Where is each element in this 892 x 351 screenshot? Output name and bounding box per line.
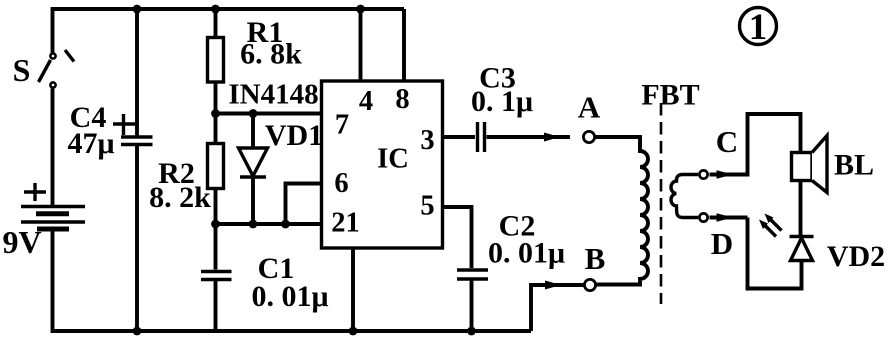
svg-text:9V: 9V [2,224,41,260]
svg-text:BL: BL [834,149,874,182]
svg-text:FBT: FBT [641,79,699,112]
svg-text:6. 8k: 6. 8k [240,38,302,71]
svg-text:VD2: VD2 [827,240,885,273]
svg-text:B: B [585,241,606,276]
svg-text:IC: IC [377,144,409,175]
svg-text:7: 7 [335,110,349,141]
svg-text:C: C [716,124,738,159]
svg-text:0. 1μ: 0. 1μ [471,85,533,118]
svg-text:3: 3 [420,125,434,156]
svg-text:D: D [711,226,733,261]
svg-text:A: A [578,90,601,125]
svg-text:IN4148: IN4148 [228,79,318,111]
svg-text:47μ: 47μ [67,127,114,160]
svg-text:VD1: VD1 [265,119,323,152]
svg-text:8. 2k: 8. 2k [149,181,211,214]
svg-text:4: 4 [359,86,373,117]
svg-text:1: 1 [749,7,768,48]
svg-text:6: 6 [334,168,348,199]
svg-text:21: 21 [331,208,360,239]
svg-text:0. 01μ: 0. 01μ [488,237,565,270]
svg-text:0. 01μ: 0. 01μ [251,280,328,313]
svg-text:S: S [13,52,31,88]
svg-text:8: 8 [395,84,409,115]
svg-text:5: 5 [420,191,434,222]
